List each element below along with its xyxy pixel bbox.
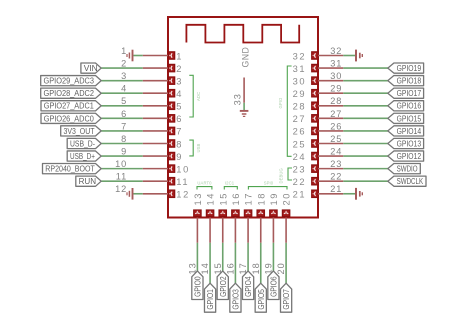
svg-text:21: 21 [330,184,342,194]
svg-text:24: 24 [293,152,307,162]
svg-text:GPIO13: GPIO13 [397,138,422,148]
svg-text:GPIO2: GPIO2 [218,276,228,297]
svg-text:30: 30 [330,71,342,81]
svg-text:7: 7 [121,121,127,131]
svg-text:GPIO15: GPIO15 [397,113,422,123]
svg-text:GPIO29_ADC3: GPIO29_ADC3 [44,76,95,86]
svg-text:26: 26 [330,121,342,131]
svg-text:9: 9 [121,146,127,156]
svg-text:GPIO4: GPIO4 [243,276,253,297]
svg-text:USB_D+: USB_D+ [70,151,95,161]
svg-text:8: 8 [121,134,127,144]
svg-text:VIN: VIN [84,63,98,73]
svg-text:GPIO5: GPIO5 [256,289,266,310]
svg-text:4: 4 [176,89,183,99]
svg-text:31: 31 [330,58,342,68]
svg-text:25: 25 [293,139,307,149]
svg-text:GPIO7: GPIO7 [281,289,291,310]
svg-text:10: 10 [176,164,190,174]
svg-text:15: 15 [218,192,228,206]
svg-text:10: 10 [115,159,127,169]
svg-text:1: 1 [121,46,127,56]
svg-text:DEBUG: DEBUG [279,168,284,183]
svg-text:18: 18 [256,192,266,206]
svg-text:RUN: RUN [79,176,97,186]
svg-text:GPIO27_ADC1: GPIO27_ADC1 [44,101,94,111]
svg-text:14: 14 [206,192,216,206]
svg-text:GPIO28_ADC2: GPIO28_ADC2 [44,88,95,98]
svg-text:28: 28 [293,102,307,112]
svg-text:23: 23 [293,164,307,174]
svg-text:16: 16 [231,192,241,206]
svg-text:30: 30 [293,76,307,86]
svg-text:USB_D-: USB_D- [70,138,95,148]
svg-text:3V3_OUT: 3V3_OUT [64,126,96,136]
svg-text:I2C1: I2C1 [225,181,235,186]
svg-text:14: 14 [200,262,210,274]
svg-text:32: 32 [330,46,342,56]
svg-text:SWDIO: SWDIO [397,164,418,174]
svg-text:31: 31 [293,64,307,74]
svg-text:27: 27 [330,109,342,119]
svg-text:1: 1 [176,51,183,61]
svg-text:25: 25 [330,134,342,144]
svg-text:GPIO6: GPIO6 [269,276,279,297]
svg-text:6: 6 [176,114,183,124]
svg-text:22: 22 [330,172,342,182]
svg-text:6: 6 [121,109,127,119]
svg-text:GPIO3: GPIO3 [231,289,241,310]
svg-text:13: 13 [193,192,203,206]
svg-text:29: 29 [330,84,342,94]
svg-text:29: 29 [293,89,307,99]
svg-text:3: 3 [176,76,183,86]
svg-text:GND: GND [241,47,251,68]
svg-text:28: 28 [330,96,342,106]
svg-text:SPI0: SPI0 [264,181,274,186]
svg-text:2: 2 [121,58,127,68]
svg-text:22: 22 [293,177,307,187]
svg-text:GPIO16: GPIO16 [397,101,422,111]
svg-text:8: 8 [176,139,183,149]
svg-text:24: 24 [330,146,342,156]
svg-text:33: 33 [233,93,243,105]
svg-text:11: 11 [176,177,189,187]
svg-text:21: 21 [293,190,307,200]
svg-text:USB: USB [196,143,201,152]
svg-text:9: 9 [176,152,183,162]
svg-text:23: 23 [330,159,342,169]
svg-text:32: 32 [293,51,307,61]
svg-text:GPIO17: GPIO17 [397,88,422,98]
svg-text:GPIO26_ADC0: GPIO26_ADC0 [44,113,94,123]
svg-text:17: 17 [244,192,254,206]
svg-text:7: 7 [176,127,183,137]
svg-text:RP2040_BOOT: RP2040_BOOT [45,164,95,174]
svg-text:GPIO18: GPIO18 [397,76,422,86]
svg-text:GPIO14: GPIO14 [397,126,422,136]
svg-text:18: 18 [251,262,261,274]
svg-text:GPIO: GPIO [278,97,283,109]
svg-text:GPIO12: GPIO12 [397,151,422,161]
svg-text:26: 26 [293,127,307,137]
svg-text:16: 16 [226,262,236,274]
svg-text:11: 11 [116,172,128,182]
svg-text:ADC: ADC [196,92,201,101]
svg-text:SWDCLK: SWDCLK [397,176,424,186]
svg-text:2: 2 [176,64,183,74]
svg-text:20: 20 [276,262,286,274]
svg-text:5: 5 [176,102,183,112]
svg-text:3: 3 [121,71,127,81]
svg-text:27: 27 [293,114,307,124]
svg-text:GPIO1: GPIO1 [205,289,215,310]
svg-text:5: 5 [121,96,127,106]
svg-text:19: 19 [269,192,279,206]
svg-text:4: 4 [121,84,127,94]
svg-text:GPIO19: GPIO19 [397,63,422,73]
svg-text:GPIO0: GPIO0 [193,276,203,297]
svg-text:12: 12 [176,190,190,200]
svg-text:12: 12 [115,184,127,194]
svg-text:UART0: UART0 [197,181,212,186]
svg-text:20: 20 [282,192,292,206]
